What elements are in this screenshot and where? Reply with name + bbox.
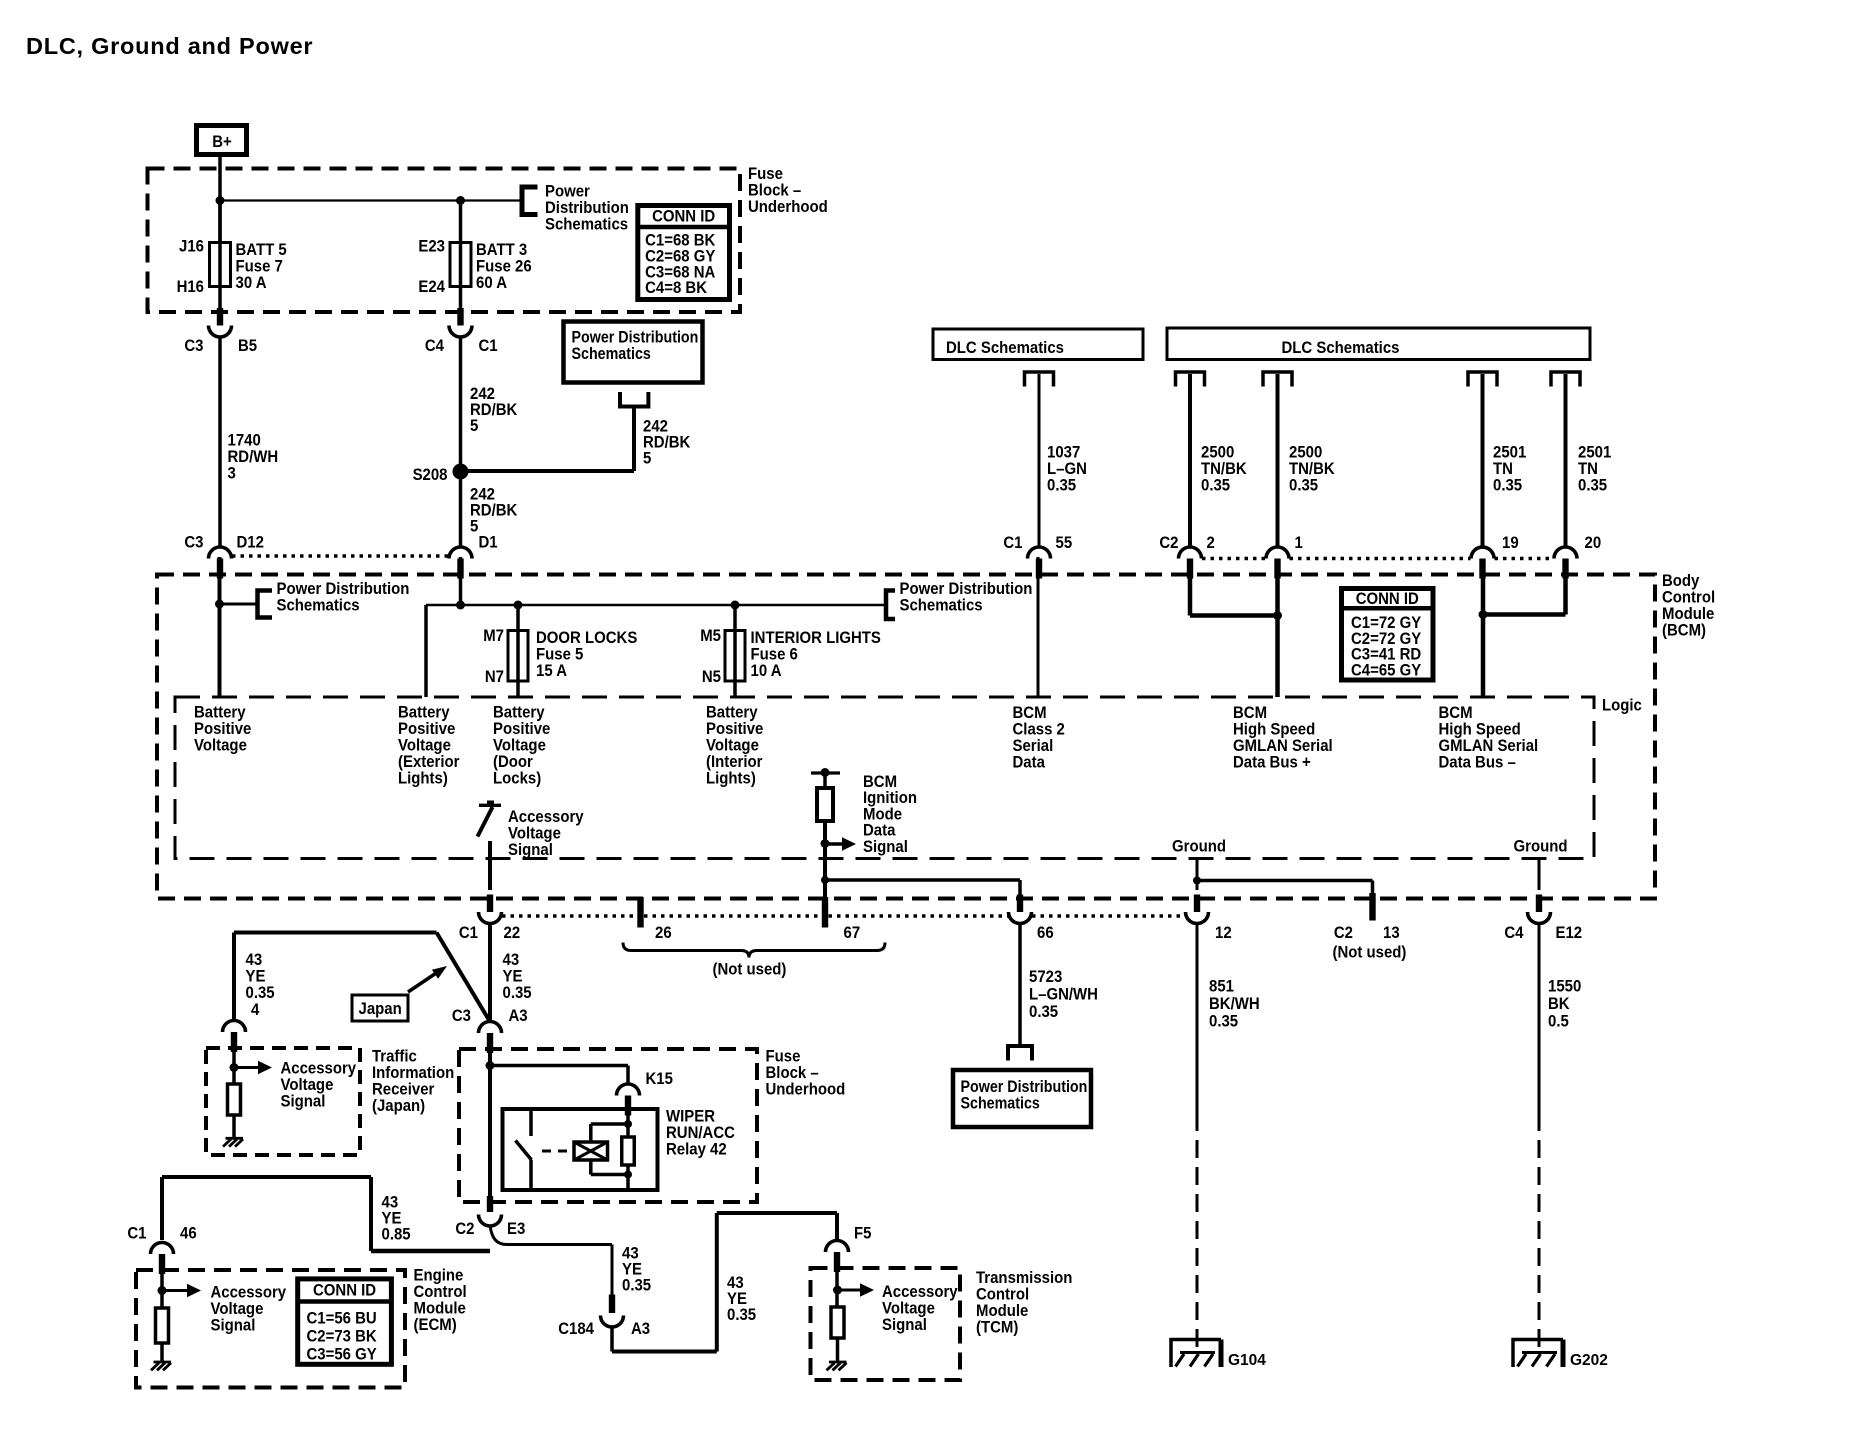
svg-text:E12: E12 — [1556, 924, 1583, 942]
svg-text:Power: Power — [545, 183, 590, 201]
svg-text:Fuse 6: Fuse 6 — [751, 646, 798, 664]
svg-text:(Exterior: (Exterior — [398, 753, 459, 771]
svg-text:Accessory: Accessory — [508, 808, 584, 826]
svg-text:(Not used): (Not used) — [1333, 944, 1407, 962]
svg-text:Lights): Lights) — [706, 770, 756, 788]
svg-text:Relay 42: Relay 42 — [666, 1141, 727, 1159]
svg-text:Data Bus +: Data Bus + — [1233, 754, 1311, 772]
svg-text:(TCM): (TCM) — [976, 1319, 1018, 1337]
svg-text:26: 26 — [655, 924, 672, 942]
svg-text:CONN ID: CONN ID — [1356, 590, 1419, 608]
svg-text:TN/BK: TN/BK — [1201, 460, 1247, 478]
svg-text:2: 2 — [1207, 534, 1215, 552]
svg-text:30 A: 30 A — [236, 274, 267, 292]
svg-text:BATT 3: BATT 3 — [476, 241, 527, 259]
svg-text:0.35: 0.35 — [1493, 477, 1522, 495]
svg-text:15 A: 15 A — [536, 662, 567, 680]
svg-text:BCM: BCM — [1013, 704, 1047, 722]
svg-text:Fuse 5: Fuse 5 — [536, 646, 583, 664]
svg-text:C3: C3 — [184, 337, 203, 355]
svg-text:C3: C3 — [452, 1007, 471, 1025]
svg-text:G202: G202 — [1570, 1352, 1608, 1369]
svg-text:Battery: Battery — [706, 704, 758, 722]
svg-text:(Door: (Door — [493, 753, 533, 771]
svg-text:M7: M7 — [483, 627, 504, 645]
svg-text:(BCM): (BCM) — [1662, 622, 1706, 640]
svg-text:Control: Control — [1662, 589, 1715, 607]
svg-text:Traffic: Traffic — [372, 1048, 417, 1066]
svg-text:C1: C1 — [479, 337, 498, 355]
svg-text:High Speed: High Speed — [1439, 721, 1521, 739]
svg-text:C2=73 BK: C2=73 BK — [307, 1328, 378, 1346]
svg-text:M5: M5 — [700, 627, 721, 645]
svg-text:0.35: 0.35 — [1209, 1013, 1238, 1031]
svg-text:BK/WH: BK/WH — [1209, 995, 1260, 1013]
svg-text:RUN/ACC: RUN/ACC — [666, 1124, 735, 1142]
svg-text:Voltage: Voltage — [194, 737, 247, 755]
svg-text:L–GN/WH: L–GN/WH — [1029, 986, 1098, 1004]
svg-text:C2: C2 — [455, 1220, 474, 1238]
svg-text:E24: E24 — [418, 278, 445, 296]
svg-text:Voltage: Voltage — [211, 1300, 264, 1318]
svg-text:Voltage: Voltage — [882, 1300, 935, 1318]
svg-text:A3: A3 — [509, 1007, 528, 1025]
svg-text:Signal: Signal — [281, 1093, 326, 1111]
svg-text:Module: Module — [976, 1302, 1028, 1320]
svg-text:Accessory: Accessory — [281, 1060, 357, 1078]
svg-text:C184: C184 — [558, 1320, 594, 1338]
svg-text:Signal: Signal — [508, 841, 553, 859]
svg-text:Receiver: Receiver — [372, 1081, 434, 1099]
svg-text:0.35: 0.35 — [727, 1306, 756, 1324]
svg-text:C3=56 GY: C3=56 GY — [307, 1346, 378, 1364]
svg-text:DLC Schematics: DLC Schematics — [1282, 339, 1400, 357]
svg-text:H16: H16 — [177, 278, 205, 296]
svg-text:B5: B5 — [238, 337, 257, 355]
svg-text:E3: E3 — [507, 1220, 525, 1238]
svg-text:0.35: 0.35 — [1029, 1003, 1058, 1021]
svg-text:Control: Control — [414, 1283, 467, 1301]
svg-text:Schematics: Schematics — [900, 597, 983, 615]
svg-text:BK: BK — [1548, 995, 1570, 1013]
svg-text:TN: TN — [1493, 460, 1513, 478]
svg-text:D1: D1 — [479, 534, 498, 552]
svg-text:Power Distribution: Power Distribution — [277, 580, 410, 598]
svg-text:Serial: Serial — [1013, 737, 1054, 755]
svg-text:0.35: 0.35 — [503, 984, 532, 1002]
svg-text:C3: C3 — [184, 534, 203, 552]
svg-text:Block –: Block – — [766, 1064, 819, 1082]
svg-text:Data Bus –: Data Bus – — [1439, 754, 1516, 772]
svg-text:C1: C1 — [1003, 534, 1022, 552]
svg-text:13: 13 — [1383, 924, 1400, 942]
svg-text:Body: Body — [1662, 572, 1699, 590]
svg-text:5: 5 — [470, 518, 478, 536]
svg-text:1: 1 — [1295, 534, 1303, 552]
svg-text:0.35: 0.35 — [246, 984, 275, 1002]
svg-text:C1: C1 — [459, 924, 478, 942]
svg-text:L–GN: L–GN — [1047, 460, 1087, 478]
svg-text:INTERIOR LIGHTS: INTERIOR LIGHTS — [751, 629, 882, 647]
svg-text:N7: N7 — [485, 668, 504, 686]
svg-text:67: 67 — [844, 924, 861, 942]
svg-text:Information: Information — [372, 1064, 454, 1082]
svg-text:WIPER: WIPER — [666, 1108, 715, 1126]
svg-text:0.85: 0.85 — [382, 1226, 411, 1244]
svg-text:Underhood: Underhood — [766, 1080, 846, 1098]
svg-text:RD/WH: RD/WH — [228, 448, 279, 466]
svg-text:Signal: Signal — [882, 1316, 927, 1334]
svg-text:C4: C4 — [425, 337, 444, 355]
svg-text:Schematics: Schematics — [961, 1094, 1041, 1112]
svg-text:2501: 2501 — [1493, 444, 1526, 462]
svg-text:GMLAN Serial: GMLAN Serial — [1233, 737, 1333, 755]
svg-text:YE: YE — [503, 968, 523, 986]
svg-text:Control: Control — [976, 1286, 1029, 1304]
svg-text:Lights): Lights) — [398, 770, 448, 788]
svg-text:N5: N5 — [702, 668, 721, 686]
svg-text:BATT 5: BATT 5 — [236, 241, 287, 259]
svg-text:(ECM): (ECM) — [414, 1316, 457, 1334]
svg-text:10 A: 10 A — [751, 662, 782, 680]
svg-text:60 A: 60 A — [476, 274, 507, 292]
svg-text:46: 46 — [180, 1225, 197, 1243]
svg-text:Block –: Block – — [748, 182, 801, 200]
svg-text:Fuse: Fuse — [766, 1047, 801, 1065]
svg-text:Module: Module — [414, 1300, 466, 1318]
svg-text:Voltage: Voltage — [508, 825, 561, 843]
svg-text:Power Distribution: Power Distribution — [900, 580, 1033, 598]
svg-text:DLC Schematics: DLC Schematics — [946, 339, 1064, 357]
svg-text:Logic: Logic — [1602, 697, 1642, 715]
svg-text:55: 55 — [1056, 534, 1073, 552]
svg-text:0.35: 0.35 — [1578, 477, 1607, 495]
svg-text:Voltage: Voltage — [281, 1076, 334, 1094]
svg-text:19: 19 — [1502, 534, 1519, 552]
svg-text:C4: C4 — [1504, 924, 1523, 942]
svg-text:5: 5 — [470, 417, 478, 435]
svg-text:0.35: 0.35 — [1289, 477, 1318, 495]
svg-text:2500: 2500 — [1289, 444, 1322, 462]
svg-text:Voltage: Voltage — [706, 737, 759, 755]
svg-text:2500: 2500 — [1201, 444, 1234, 462]
svg-text:0.35: 0.35 — [1201, 477, 1230, 495]
svg-text:DLC, Ground and Power: DLC, Ground and Power — [26, 33, 313, 59]
svg-text:Schematics: Schematics — [545, 215, 628, 233]
svg-text:851: 851 — [1209, 978, 1234, 996]
svg-text:Accessory: Accessory — [882, 1283, 958, 1301]
svg-text:(Interior: (Interior — [706, 753, 762, 771]
svg-text:A3: A3 — [631, 1320, 650, 1338]
svg-text:0.35: 0.35 — [622, 1277, 651, 1295]
svg-text:C1: C1 — [127, 1225, 146, 1243]
svg-text:BCM: BCM — [1233, 704, 1267, 722]
svg-text:BCM: BCM — [1439, 704, 1473, 722]
svg-text:20: 20 — [1585, 534, 1602, 552]
svg-text:Positive: Positive — [493, 720, 550, 738]
svg-text:Signal: Signal — [211, 1317, 256, 1335]
svg-text:Class 2: Class 2 — [1013, 721, 1065, 739]
svg-text:(Not used): (Not used) — [713, 961, 787, 979]
svg-text:Locks): Locks) — [493, 770, 541, 788]
svg-text:E23: E23 — [418, 238, 445, 256]
svg-text:1550: 1550 — [1548, 978, 1581, 996]
svg-text:TN: TN — [1578, 460, 1598, 478]
svg-text:DOOR LOCKS: DOOR LOCKS — [536, 629, 638, 647]
svg-text:5: 5 — [643, 450, 651, 468]
svg-text:Schematics: Schematics — [277, 597, 360, 615]
svg-text:0.35: 0.35 — [1047, 477, 1076, 495]
svg-text:1740: 1740 — [228, 432, 261, 450]
svg-text:YE: YE — [246, 968, 266, 986]
svg-text:43: 43 — [503, 951, 520, 969]
svg-text:High Speed: High Speed — [1233, 721, 1315, 739]
svg-text:D12: D12 — [237, 534, 265, 552]
svg-text:Battery: Battery — [493, 704, 545, 722]
svg-text:2501: 2501 — [1578, 444, 1611, 462]
svg-text:Distribution: Distribution — [545, 199, 629, 217]
svg-text:1037: 1037 — [1047, 444, 1080, 462]
svg-text:Battery: Battery — [398, 704, 450, 722]
svg-text:GMLAN Serial: GMLAN Serial — [1439, 737, 1539, 755]
svg-text:C1=56 BU: C1=56 BU — [307, 1309, 377, 1327]
svg-text:5723: 5723 — [1029, 968, 1062, 986]
svg-text:Fuse 7: Fuse 7 — [236, 258, 283, 276]
svg-text:22: 22 — [504, 924, 521, 942]
svg-text:Schematics: Schematics — [572, 345, 652, 363]
svg-text:Positive: Positive — [398, 720, 455, 738]
svg-text:Accessory: Accessory — [211, 1284, 287, 1302]
svg-text:Data: Data — [1013, 754, 1045, 772]
svg-text:CONN ID: CONN ID — [652, 207, 715, 225]
svg-text:Voltage: Voltage — [493, 737, 546, 755]
svg-text:Module: Module — [1662, 605, 1714, 623]
svg-text:Transmission: Transmission — [976, 1269, 1072, 1287]
svg-text:Engine: Engine — [414, 1267, 464, 1285]
svg-text:Fuse 26: Fuse 26 — [476, 258, 532, 276]
svg-text:Ground: Ground — [1172, 838, 1226, 856]
svg-text:43: 43 — [246, 951, 263, 969]
svg-text:Fuse: Fuse — [748, 165, 783, 183]
svg-text:K15: K15 — [646, 1070, 674, 1088]
svg-text:C2: C2 — [1159, 534, 1178, 552]
svg-text:C4=65 GY: C4=65 GY — [1351, 662, 1422, 680]
svg-text:12: 12 — [1215, 924, 1232, 942]
svg-text:4: 4 — [251, 1001, 259, 1019]
svg-text:Positive: Positive — [706, 720, 763, 738]
svg-text:CONN ID: CONN ID — [313, 1282, 376, 1300]
svg-text:C2: C2 — [1334, 924, 1353, 942]
svg-text:TN/BK: TN/BK — [1289, 460, 1335, 478]
svg-text:3: 3 — [228, 465, 236, 483]
svg-text:Ground: Ground — [1514, 838, 1568, 856]
svg-text:C4=8 BK: C4=8 BK — [645, 279, 707, 297]
svg-text:Signal: Signal — [863, 838, 908, 856]
svg-text:J16: J16 — [179, 238, 204, 256]
svg-text:S208: S208 — [413, 466, 448, 484]
svg-text:(Japan): (Japan) — [372, 1097, 425, 1115]
svg-text:66: 66 — [1037, 924, 1054, 942]
svg-text:Underhood: Underhood — [748, 198, 828, 216]
svg-text:0.5: 0.5 — [1548, 1013, 1569, 1031]
svg-text:Voltage: Voltage — [398, 737, 451, 755]
svg-text:Japan: Japan — [359, 1000, 402, 1018]
svg-text:Battery: Battery — [194, 704, 246, 722]
svg-text:F5: F5 — [854, 1225, 872, 1243]
svg-text:G104: G104 — [1228, 1352, 1266, 1369]
svg-text:Positive: Positive — [194, 720, 251, 738]
svg-text:B+: B+ — [212, 133, 232, 151]
